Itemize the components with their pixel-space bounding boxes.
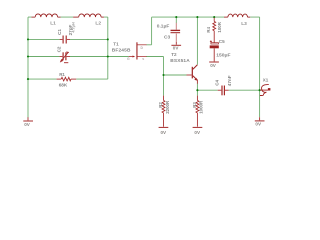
svg-text:R4: R4	[206, 26, 211, 32]
svg-text:0V: 0V	[210, 63, 217, 68]
svg-text:T2: T2	[171, 52, 177, 57]
inductor note text	[71, 22, 75, 33]
node junction C2-rail	[27, 55, 29, 57]
svg-text:BF245B: BF245B	[112, 48, 131, 54]
connector X1	[260, 85, 269, 96]
svg-text:L2: L2	[95, 21, 101, 27]
wire C1 net	[28, 38, 108, 40]
wire base net	[164, 74, 187, 76]
resistor R1	[57, 77, 77, 81]
capacitor C2 trimmer	[60, 52, 70, 63]
svg-text:G: G	[127, 57, 130, 61]
inductor L1	[31, 14, 60, 17]
svg-text:68K: 68K	[59, 82, 68, 87]
svg-text:27pF: 27pF	[68, 24, 73, 35]
ground C5	[209, 61, 219, 63]
svg-text:BSX51A: BSX51A	[170, 58, 190, 64]
ground R2	[159, 126, 169, 128]
transistor T1 JFET BF245B	[129, 42, 147, 59]
transistor T2 BSX51A	[187, 65, 198, 84]
capacitor C3	[175, 23, 177, 42]
node junction C2-mid	[107, 55, 109, 57]
node junction collector-top	[196, 16, 198, 18]
wire left rail	[27, 17, 29, 117]
wire top segment 2	[152, 16, 260, 18]
svg-text:0V: 0V	[194, 130, 201, 135]
svg-text:2200R: 2200R	[165, 100, 170, 114]
resistor R3	[196, 96, 199, 127]
node junction source-base	[162, 74, 164, 76]
wire output net	[197, 89, 259, 91]
node junction C3-top	[175, 16, 177, 18]
inductor L3	[224, 14, 250, 17]
svg-text:0V: 0V	[161, 130, 168, 135]
ground C3	[175, 42, 177, 45]
svg-text:X1: X1	[263, 77, 269, 82]
svg-text:47nF: 47nF	[227, 75, 232, 86]
svg-text:1000R: 1000R	[199, 100, 204, 114]
wire right drop	[259, 17, 261, 117]
resistor R2	[162, 96, 165, 127]
ground X1 drop	[259, 117, 261, 120]
svg-text:R1: R1	[59, 72, 65, 77]
capacitor C5 polarized	[210, 40, 219, 44]
svg-text:C1: C1	[57, 29, 62, 35]
wire C2 gate net	[28, 56, 129, 58]
wire emitter to R3	[196, 84, 198, 96]
capacitor C1	[60, 36, 70, 44]
ground left rail	[27, 117, 29, 120]
node junction C1-mid	[107, 38, 109, 40]
node junction emitter-output	[196, 89, 198, 91]
svg-text:0.1μF: 0.1μF	[157, 23, 170, 29]
svg-text:T1: T1	[113, 42, 119, 47]
svg-text:L3: L3	[241, 21, 247, 27]
wire C3 stub	[175, 17, 177, 23]
capacitor C4	[218, 86, 229, 96]
ground R3	[193, 126, 203, 128]
svg-text:R3: R3	[192, 102, 197, 108]
svg-text:R2: R2	[158, 102, 163, 108]
inductor L2	[73, 14, 104, 17]
wire source net	[146, 57, 164, 96]
node junction X1	[259, 89, 261, 91]
svg-text:C4: C4	[215, 79, 220, 85]
wire collector riser	[196, 17, 198, 65]
svg-text:C3: C3	[164, 35, 170, 41]
svg-text:0V: 0V	[173, 46, 180, 51]
svg-text:C2: C2	[57, 46, 62, 52]
svg-text:100R: 100R	[217, 21, 222, 32]
svg-text:C5: C5	[219, 39, 225, 44]
wire top segment 1	[28, 16, 108, 18]
wire R1 net	[28, 78, 108, 80]
svg-text:150μF: 150μF	[216, 52, 230, 58]
svg-text:0V: 0V	[24, 122, 31, 127]
wire drain riser	[146, 17, 151, 45]
node junction C1-rail	[27, 38, 29, 40]
svg-text:S: S	[142, 57, 144, 61]
wire mid vertical	[107, 17, 109, 79]
resistor R4	[213, 18, 216, 43]
svg-text:L1: L1	[50, 21, 56, 27]
node junction R1-rail	[27, 78, 29, 80]
svg-text:0V: 0V	[255, 122, 262, 127]
node junction R4-top	[213, 16, 215, 18]
